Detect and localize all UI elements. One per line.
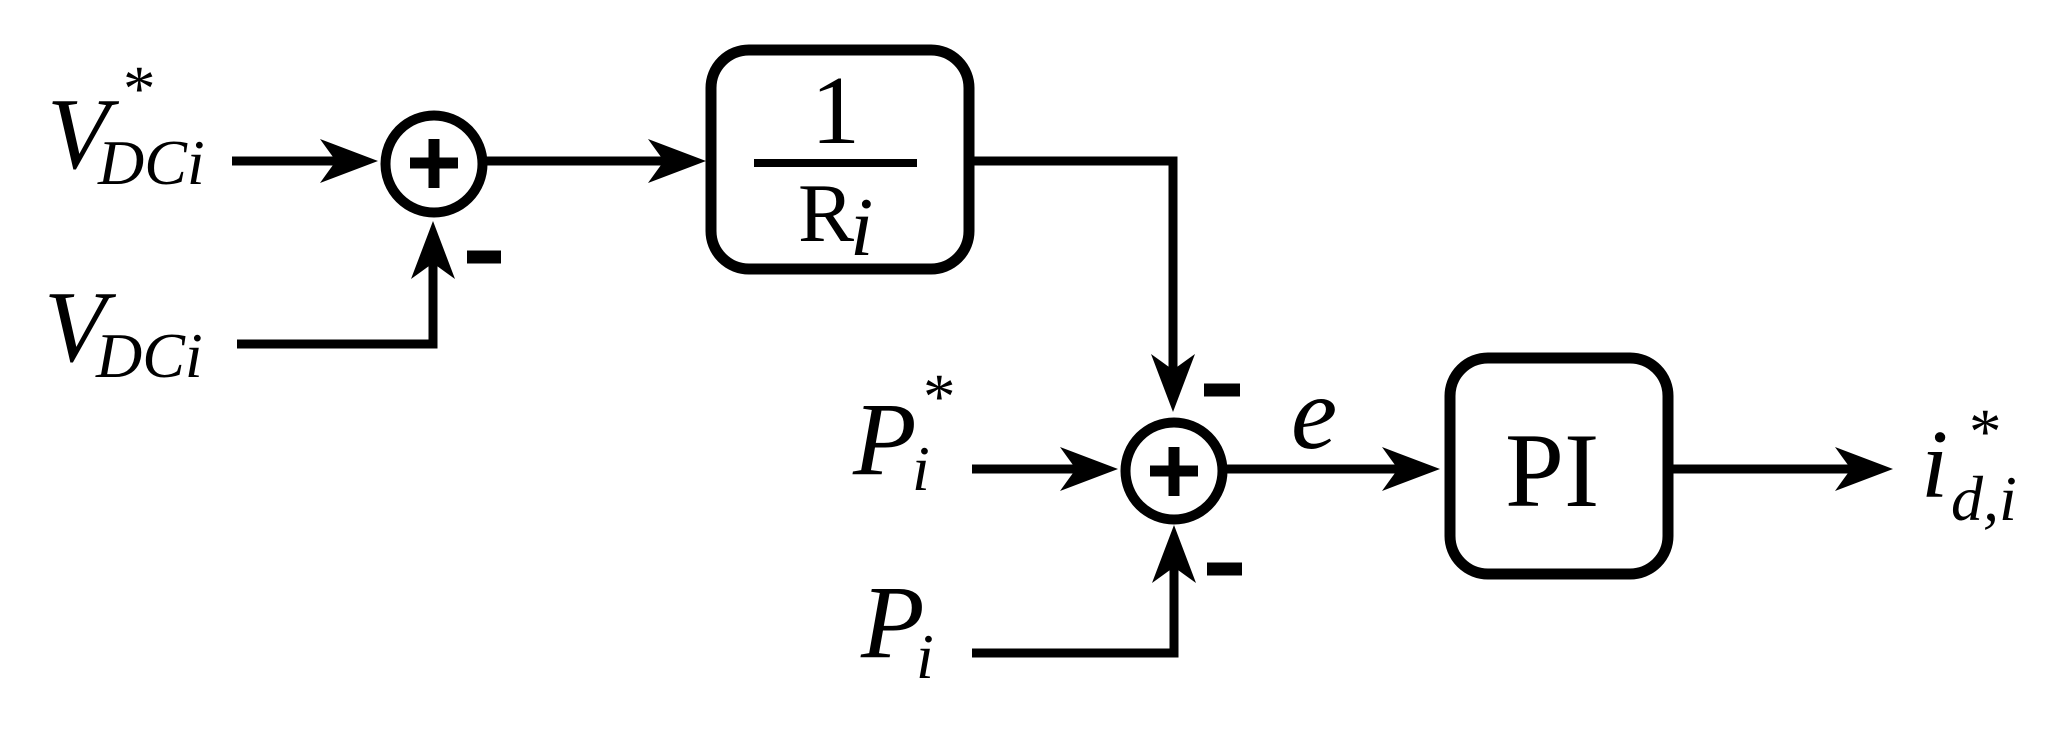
label P*_i (power reference) [852,361,956,504]
svg-text:P: P [852,382,917,497]
wire from S2 to PI block [1227,447,1440,491]
minus sign at S2 top input [1204,384,1240,397]
summing junction S1 [386,116,483,213]
svg-text:PI: PI [1505,412,1599,529]
svg-text:e: e [1291,356,1337,471]
minus sign at S1 lower input [467,251,501,264]
svg-text:R: R [798,167,854,260]
droop gain block 1/Ri [711,50,969,274]
svg-text:DCi: DCi [97,127,205,198]
minus sign at S2 bottom input [1207,563,1242,576]
svg-text:d,i: d,i [1951,463,2017,534]
wire from P*_i to summing junction S2 [972,447,1118,491]
svg-text:P: P [860,565,925,680]
PI controller block [1450,358,1668,574]
svg-text:i: i [850,181,873,274]
svg-text:1: 1 [811,57,860,165]
label V*_DCi (input reference voltage) [47,53,205,198]
wire from PI block to output [1673,447,1893,491]
svg-text:*: * [1969,396,2002,468]
label P_i (measured power) [860,565,934,692]
svg-text:i: i [912,433,930,504]
wire from 1/Ri block down into summing junction S2 [969,161,1195,412]
label i*_d,i (output current reference) [1921,396,2017,534]
summing junction S2 [1126,423,1223,520]
svg-text:i: i [916,621,934,692]
wire from V*_DCi to summing junction S1 [232,139,378,183]
label V_DCi (measured voltage) [44,271,203,391]
svg-text:DCi: DCi [95,320,203,391]
wire from S1 to droop gain block [484,139,706,183]
svg-text:*: * [123,53,156,125]
wire from V_DCi up into S1 bottom [237,221,455,344]
svg-text:*: * [923,361,956,433]
wire from P_i up into S2 bottom [972,525,1196,653]
svg-text:i: i [1921,411,1948,519]
